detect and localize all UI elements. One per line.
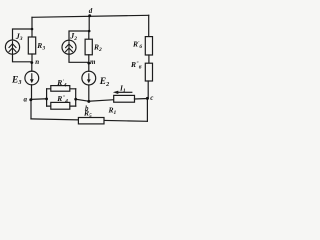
svg-text:E3: E3	[11, 75, 21, 86]
svg-text:R"4: R"4	[56, 94, 68, 105]
svg-text:c: c	[150, 94, 153, 102]
svg-text:b: b	[85, 105, 89, 113]
svg-text:R1: R1	[108, 106, 117, 117]
svg-text:J2: J2	[69, 32, 77, 42]
svg-text:d: d	[89, 7, 93, 15]
svg-text:E2: E2	[99, 77, 109, 88]
svg-text:n: n	[35, 58, 39, 66]
svg-text:m: m	[90, 58, 96, 66]
svg-text:a: a	[24, 95, 28, 103]
svg-text:R3: R3	[36, 41, 45, 52]
svg-text:J3: J3	[15, 32, 23, 42]
svg-text:I1: I1	[119, 84, 126, 95]
svg-text:R'4: R'4	[56, 78, 66, 89]
svg-text:R"6: R"6	[130, 60, 142, 71]
svg-text:R'6: R'6	[132, 40, 142, 51]
svg-text:R2: R2	[93, 43, 102, 54]
